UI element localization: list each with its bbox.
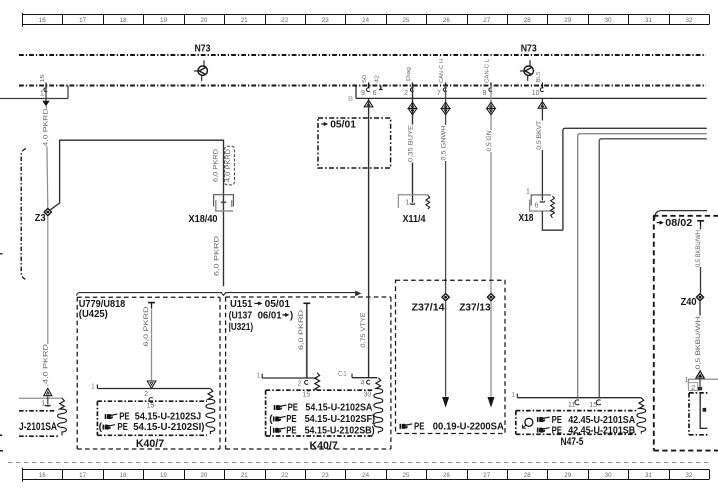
connector X18/40 housing — [214, 195, 234, 207]
pin foot X11/4 — [410, 203, 414, 204]
pin 10 socket — [540, 88, 543, 92]
pin cavity box Z40 — [689, 383, 698, 391]
hand icon r1 box2 — [274, 405, 287, 411]
svg-text:54.15-U-2102SA: 54.15-U-2102SA — [305, 403, 372, 414]
connector bar bottom-left — [19, 397, 63, 399]
svg-text:PE: PE — [288, 403, 298, 414]
svg-text:0,5 BKVT: 0,5 BKVT — [536, 121, 543, 150]
svg-text:K40/7: K40/7 — [136, 438, 164, 450]
pin rail I1 box2 — [262, 377, 317, 379]
bus B left riser — [67, 86, 69, 99]
pin socket box2 pin4 — [367, 380, 370, 384]
svg-text:29: 29 — [564, 472, 571, 479]
arrow down Z37/14 — [442, 397, 449, 408]
grid ruler top — [22, 14, 709, 16]
svg-text:Z37/14: Z37/14 — [412, 303, 445, 314]
control unit N73 border bottom — [19, 84, 706, 86]
svg-text:9: 9 — [361, 90, 365, 97]
svg-text:PE: PE — [552, 415, 562, 426]
svg-text:15: 15 — [303, 391, 311, 398]
hand icon r1 N47-5 — [537, 417, 550, 423]
inner box K40/7-2 — [266, 389, 374, 391]
svg-text:25: 25 — [403, 17, 410, 24]
guard corner 08/02 — [655, 211, 708, 219]
bus B main — [356, 97, 707, 99]
label 0,5 GN — [487, 130, 494, 152]
svg-text:28: 28 — [524, 17, 531, 24]
svg-text:PE: PE — [286, 414, 296, 425]
pin stub 42 — [380, 86, 382, 90]
junction arrow down — [42, 101, 49, 107]
svg-text:20: 20 — [200, 472, 207, 479]
label 0,5 BKBU/WH lower — [696, 316, 703, 371]
svg-text:6,0 PKRD: 6,0 PKRD — [143, 306, 150, 347]
hand icon r2 box1 — [103, 424, 116, 430]
svg-text:(: ( — [99, 422, 103, 433]
wire 0,5 GN — [490, 86, 492, 293]
coil zigzag box2 left — [315, 373, 320, 390]
wire stub into box — [47, 396, 49, 405]
svg-text:22: 22 — [281, 17, 288, 24]
label 0,5 BKBU/WH upper — [696, 230, 703, 268]
svg-text:23: 23 — [322, 17, 329, 24]
svg-text:2: 2 — [144, 391, 148, 398]
svg-text:31: 31 — [645, 17, 652, 24]
pin 10 tick — [541, 83, 543, 88]
svg-text:1: 1 — [511, 392, 515, 399]
svg-text:1: 1 — [405, 200, 409, 207]
cut box edge stubs left — [0, 434, 2, 436]
pin 8 socket — [489, 88, 492, 92]
boxed label 4,0 PKRD — [225, 146, 235, 185]
hand icon r3 box2 — [273, 427, 286, 433]
pair marker GN — [487, 102, 496, 108]
label 05/01 — [321, 123, 325, 125]
box J-2101SA bottom edge — [19, 435, 58, 437]
hand icon r2 box2 — [273, 416, 286, 422]
svg-text:24: 24 — [362, 17, 369, 24]
svg-text:N73: N73 — [521, 43, 537, 54]
hand icon r2 N47-5 — [537, 427, 550, 433]
svg-text:1: 1 — [91, 383, 95, 390]
svg-text:PE: PE — [414, 422, 424, 433]
svg-text:6,0 PKRD: 6,0 PKRD — [214, 235, 221, 276]
svg-text:PE: PE — [117, 422, 127, 433]
svg-text:54.15-U-2102SJ: 54.15-U-2102SJ — [135, 412, 202, 423]
node Z37/13 — [487, 294, 494, 301]
coil zigzag box2 right — [374, 378, 383, 434]
svg-text:11: 11 — [568, 402, 575, 409]
svg-text:42.45-U-2101SA: 42.45-U-2101SA — [568, 415, 635, 426]
svg-text:(: ( — [269, 414, 273, 425]
inner box N47-5 — [516, 410, 637, 412]
svg-text:00.19-U-2200SA: 00.19-U-2200SA — [433, 422, 504, 433]
recycle icon N47-5 — [525, 418, 533, 426]
pin 7 tick — [445, 83, 447, 88]
wire 6,0 PKRD box1 — [151, 308, 153, 381]
svg-text:Z3: Z3 — [35, 213, 46, 224]
cut wire stub left edge — [0, 253, 3, 255]
inner box K40/7-1 — [97, 400, 207, 402]
svg-text:PE: PE — [286, 425, 296, 436]
bus B riser — [355, 86, 357, 99]
corner wire 1 — [563, 128, 707, 230]
triangle arrow up Z40 wire — [696, 371, 704, 378]
svg-text:(U425): (U425) — [79, 309, 108, 320]
svg-text:1: 1 — [40, 91, 44, 98]
svg-text:N47-5: N47-5 — [561, 436, 584, 448]
svg-text:0,5 BKBU/WH: 0,5 BKBU/WH — [696, 317, 702, 370]
hand icon Z37 — [400, 423, 413, 429]
box 05/01 outline — [318, 118, 391, 168]
svg-text:42.45-U-2101SB: 42.45-U-2101SB — [568, 425, 635, 436]
svg-text:05/01: 05/01 — [330, 119, 356, 130]
wire stub Z40 lower — [699, 378, 701, 386]
svg-text:20: 20 — [200, 17, 207, 24]
svg-text:42: 42 — [375, 75, 381, 83]
svg-text:7: 7 — [437, 90, 441, 97]
pin 2 socket — [410, 88, 413, 92]
wire pin15 to arrow — [45, 86, 47, 101]
svg-text:0,75 VTYE: 0,75 VTYE — [360, 313, 367, 348]
coil zigzag bottom-left — [58, 398, 67, 435]
svg-text:26: 26 — [443, 472, 450, 479]
wire X18 jog to corner1 — [542, 211, 563, 230]
corner wire 3 — [599, 139, 707, 398]
terminal mark in Z40 box — [703, 408, 707, 412]
label 0,5 GNWH — [442, 125, 449, 161]
ground box Z37 outline — [396, 280, 506, 433]
grid ruler bottom — [22, 469, 709, 471]
svg-text:): ) — [290, 311, 293, 322]
svg-text:28: 28 — [524, 472, 531, 479]
pin foot X18 — [540, 201, 544, 202]
svg-text:6: 6 — [534, 203, 538, 210]
svg-text:54.15-U-2102SI): 54.15-U-2102SI) — [133, 422, 204, 433]
pin 7 socket — [444, 88, 447, 92]
svg-text:18: 18 — [120, 17, 127, 24]
svg-text:0,35 BUYE: 0,35 BUYE — [407, 125, 414, 162]
svg-text:CAN-C L: CAN-C L — [485, 58, 491, 83]
control unit N73 border top — [19, 54, 706, 56]
wire start T box1 — [148, 302, 155, 304]
pin foot Z40 — [698, 387, 702, 391]
svg-text:2: 2 — [691, 385, 695, 392]
wire start T box2 — [303, 302, 310, 304]
wire 0,5 BKBU/WH upper — [700, 226, 702, 293]
coil zigzag box1 — [206, 389, 215, 435]
wire Z3 branch — [50, 140, 223, 286]
svg-text:25: 25 — [403, 472, 410, 479]
svg-text:21: 21 — [241, 17, 248, 24]
svg-text:30: 30 — [364, 391, 372, 398]
pin 2 tick — [412, 83, 414, 88]
svg-text:1: 1 — [256, 373, 260, 380]
separator dashed line — [8, 462, 710, 464]
pin socket N47-5 pin15 — [596, 400, 600, 405]
svg-text:21: 21 — [241, 472, 248, 479]
svg-text:08/02: 08/02 — [665, 218, 692, 229]
svg-text:X18/40: X18/40 — [189, 214, 218, 225]
svg-text:2: 2 — [404, 90, 408, 97]
svg-text:54.15-U-2102SF): 54.15-U-2102SF) — [305, 414, 376, 425]
guard line over K40/7 boxes with arrow — [77, 293, 356, 296]
pin foot X18/40 — [221, 201, 225, 202]
svg-text:4: 4 — [360, 380, 364, 387]
svg-text:26: 26 — [443, 17, 450, 24]
svg-text:16: 16 — [39, 17, 46, 24]
bus B left segment — [0, 98, 68, 100]
svg-text:8: 8 — [482, 90, 486, 97]
svg-text:15: 15 — [40, 75, 46, 83]
component box U151 outline — [226, 296, 391, 298]
svg-text:4,0 PKRD: 4,0 PKRD — [43, 343, 50, 384]
wire GN in box — [490, 302, 492, 397]
label 0,35 BUYE — [409, 125, 416, 163]
svg-text:32: 32 — [685, 17, 692, 24]
svg-text:6: 6 — [373, 90, 377, 97]
svg-text:6,0 PKRD: 6,0 PKRD — [298, 309, 305, 350]
svg-text:27: 27 — [483, 472, 490, 479]
wire 0,5 BKVT — [541, 98, 543, 200]
wire 4,0 PKRD lower — [47, 216, 49, 385]
svg-text:Z40: Z40 — [681, 297, 697, 308]
svg-text:|: | — [269, 425, 271, 436]
svg-text:X18: X18 — [519, 213, 534, 224]
svg-text:Z37/13: Z37/13 — [459, 303, 491, 314]
svg-text:29: 29 — [564, 17, 571, 24]
svg-text:PE: PE — [552, 425, 562, 436]
hand icon r1 box1 — [105, 414, 118, 420]
wire 0,5 GNWH — [445, 86, 447, 293]
svg-text:2: 2 — [298, 380, 302, 387]
pin rail box1 — [97, 388, 210, 390]
pin socket box2 pin2 — [305, 380, 308, 384]
triangle arrow up BKVT — [538, 102, 547, 109]
svg-text:05/01: 05/01 — [265, 299, 291, 310]
triangle arrow down box1 — [147, 381, 156, 388]
svg-text:19: 19 — [160, 472, 167, 479]
svg-text:1: 1 — [41, 400, 45, 407]
svg-text:15: 15 — [147, 403, 155, 410]
svg-text:CAN-C H: CAN-C H — [439, 59, 445, 83]
connector bracket Z40 — [689, 379, 718, 387]
pin socket N47-5 pin11 — [575, 400, 579, 405]
box J-2101SA top edge — [19, 410, 56, 412]
pin 8 tick — [490, 83, 492, 88]
svg-text:06/01: 06/01 — [258, 311, 282, 322]
wire 0,75 VTYE — [368, 98, 370, 377]
wire start T 08/02 — [697, 220, 704, 222]
label 08/02 — [657, 222, 661, 224]
svg-text:1: 1 — [684, 377, 688, 384]
pin 15 tick — [45, 83, 47, 88]
inner box Z40 ground — [689, 392, 707, 394]
pin socket box1 — [149, 398, 153, 403]
svg-text:27: 27 — [483, 17, 490, 24]
coil zigzag X18 — [551, 196, 555, 218]
svg-text:54.15-U-2102SB): 54.15-U-2102SB) — [305, 425, 375, 436]
svg-text:N73: N73 — [195, 44, 211, 55]
svg-text:10: 10 — [532, 90, 540, 97]
svg-text:18: 18 — [120, 472, 127, 479]
ground wire in Z40 box — [700, 393, 707, 428]
svg-text:J-2101SA: J-2101SA — [19, 421, 57, 433]
svg-text:X11/4: X11/4 — [403, 214, 426, 225]
svg-text:U151: U151 — [230, 299, 253, 310]
svg-text:0,5 BKBU/WH: 0,5 BKBU/WH — [696, 230, 702, 267]
box 08/02 outline — [653, 215, 718, 217]
svg-text:0,5 GNWH: 0,5 GNWH — [441, 126, 448, 161]
cut component edge left — [21, 149, 26, 280]
pair marker GNWH — [441, 102, 450, 108]
svg-text:23: 23 — [322, 472, 329, 479]
pair marker BUYE — [408, 102, 417, 108]
svg-text:30: 30 — [605, 17, 612, 24]
svg-text:BLS: BLS — [536, 71, 542, 82]
connector X11/4 bracket — [398, 195, 428, 208]
svg-text:1: 1 — [526, 188, 530, 195]
wire 6,0 PKRD box2 — [306, 309, 308, 378]
wire 4,0 PKRD upper — [46, 106, 47, 208]
label 4,0 PKRD upper — [44, 109, 51, 147]
pin 9/6 socket — [367, 88, 370, 92]
svg-text:6,0 PKRD: 6,0 PKRD — [213, 148, 220, 182]
svg-text:0,5 GN: 0,5 GN — [486, 131, 493, 152]
svg-text:B: B — [348, 94, 353, 103]
wire 0,5 BKBU/WH lower — [699, 302, 701, 371]
svg-text:17: 17 — [79, 17, 86, 24]
svg-text:4,0 PKRD: 4,0 PKRD — [225, 148, 232, 182]
pin 9/6 tick — [368, 83, 370, 88]
arrow down Z37/13 — [488, 397, 495, 408]
svg-text:PE: PE — [119, 412, 129, 423]
op symbol N73 left — [198, 66, 207, 75]
svg-text:17: 17 — [79, 472, 86, 479]
node Z37/14 — [442, 294, 449, 301]
label 4,0 PKRD lower — [44, 344, 51, 385]
coil zigzag X11/4 — [426, 195, 430, 209]
triangle arrow up bottom-left — [44, 388, 52, 395]
svg-text:|U321): |U321) — [229, 322, 254, 333]
svg-text:19: 19 — [160, 17, 167, 24]
svg-text:30: 30 — [605, 472, 612, 479]
svg-text:22: 22 — [281, 472, 288, 479]
svg-text:16: 16 — [39, 472, 46, 479]
pin rail C1 box2 — [352, 377, 377, 379]
label 0,5 BKVT — [537, 121, 544, 151]
component box U779/U818 outline — [77, 296, 220, 298]
svg-text:C1: C1 — [338, 371, 347, 378]
svg-text:K40/7: K40/7 — [310, 440, 338, 452]
node Z40 — [696, 294, 703, 301]
wire GNWH in box — [445, 302, 447, 397]
pin foot bottom-left — [46, 405, 50, 406]
svg-text:Diag: Diag — [406, 67, 412, 81]
pin 15 socket — [44, 88, 47, 92]
corner wire 2 — [578, 134, 707, 398]
node Z3 — [44, 208, 51, 215]
pin rail N47-5 — [517, 397, 641, 399]
coil zigzag N47-5 — [637, 398, 646, 434]
svg-text:50: 50 — [362, 75, 368, 83]
op symbol N73 right — [524, 66, 533, 75]
triangle arrow up VTYE — [364, 100, 373, 107]
connector X18 housing — [531, 195, 551, 206]
svg-text:(U137: (U137 — [229, 311, 253, 322]
svg-text:24: 24 — [362, 472, 369, 479]
svg-text:4,0 PKRD: 4,0 PKRD — [42, 108, 49, 147]
svg-text:31: 31 — [645, 472, 652, 479]
wire 0,35 BUYE — [412, 86, 414, 203]
svg-text:32: 32 — [685, 472, 692, 479]
